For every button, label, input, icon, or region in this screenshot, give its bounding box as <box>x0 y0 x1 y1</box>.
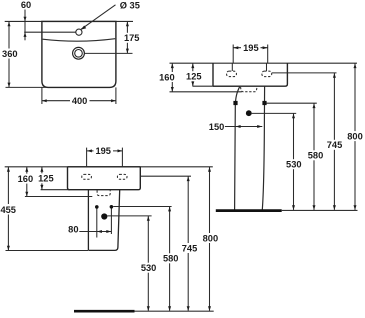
svg-text:195: 195 <box>243 43 259 53</box>
svg-text:745: 745 <box>182 243 198 253</box>
svg-text:195: 195 <box>95 146 111 156</box>
svg-text:175: 175 <box>124 33 140 43</box>
svg-text:800: 800 <box>203 233 219 243</box>
svg-text:400: 400 <box>72 96 88 106</box>
svg-text:125: 125 <box>38 174 54 184</box>
svg-text:530: 530 <box>141 263 157 273</box>
svg-text:745: 745 <box>327 140 343 150</box>
svg-text:60: 60 <box>21 0 31 10</box>
svg-text:80: 80 <box>68 225 78 235</box>
svg-text:150: 150 <box>209 122 225 132</box>
svg-text:530: 530 <box>286 160 302 170</box>
svg-text:580: 580 <box>308 151 324 161</box>
svg-text:125: 125 <box>186 72 202 82</box>
svg-text:160: 160 <box>159 72 175 82</box>
svg-text:800: 800 <box>347 132 363 142</box>
svg-text:580: 580 <box>163 254 179 264</box>
svg-text:160: 160 <box>18 174 34 184</box>
svg-text:360: 360 <box>2 49 18 59</box>
svg-text:Ø 35: Ø 35 <box>120 0 140 10</box>
svg-text:455: 455 <box>0 205 16 215</box>
